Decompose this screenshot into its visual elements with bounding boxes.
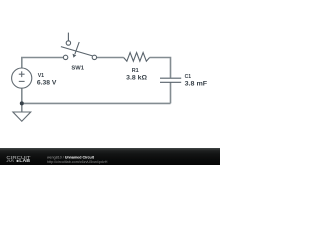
ground [13, 112, 31, 121]
svg-text:V1: V1 [38, 73, 45, 79]
svg-text:LAB: LAB [19, 158, 30, 163]
svg-text:3.8 mF: 3.8 mF [185, 80, 208, 87]
arrowhead of SW1 actuator [73, 54, 77, 58]
switch SW1 [61, 33, 97, 60]
voltage source V1 [12, 68, 32, 88]
wire: switch right terminal to resistor R1 [97, 57, 124, 59]
footer bar [0, 148, 220, 165]
svg-text:6.38 V: 6.38 V [37, 79, 57, 86]
terminal left [63, 55, 67, 59]
CircuitLab logo: waveform trace [7, 160, 14, 161]
node junction dot [20, 101, 24, 105]
terminal right [92, 55, 96, 59]
svg-text:weng810 / Unnamed Circuit: weng810 / Unnamed Circuit [47, 154, 95, 159]
CircuitLab logo: scope icon [17, 160, 19, 162]
svg-text:SW1: SW1 [71, 66, 84, 72]
wire top-left: V1 top to switch left terminal [22, 58, 64, 69]
wire: V1 bottom to ground [21, 88, 23, 112]
svg-text:C1: C1 [185, 74, 192, 80]
svg-text:http://circuitlab.com/c6zvU5vw: http://circuitlab.com/c6zvU5vw4pdvH [47, 160, 108, 164]
capacitor C1 plates [160, 78, 181, 82]
wire bottom: ground junction to bottom-right corner [22, 102, 171, 104]
svg-text:3.8 kΩ: 3.8 kΩ [126, 75, 147, 82]
svg-text:R1: R1 [132, 68, 140, 74]
actuator arrow shaft [75, 42, 79, 54]
resistor R1 [124, 53, 150, 62]
terminal top [66, 41, 70, 45]
lever [61, 47, 93, 56]
stub to unused throw terminal [67, 33, 69, 41]
wire: C1 bottom plate to bottom-right corner [170, 82, 172, 103]
wire: resistor R1 to top-right corner down to C1 [150, 58, 171, 78]
